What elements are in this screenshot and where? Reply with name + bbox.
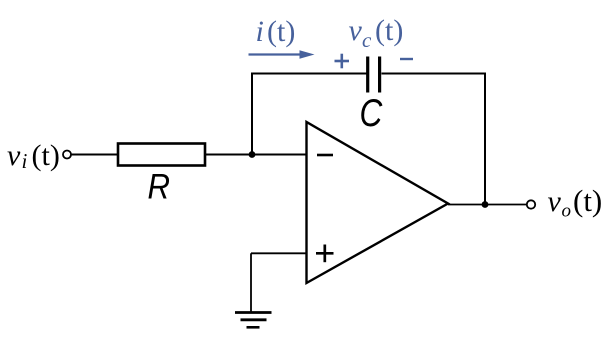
node Vo output terminal <box>527 200 535 208</box>
resistor R <box>118 144 205 166</box>
capacitor C left plate <box>366 57 369 93</box>
svg-text:(t): (t) <box>573 183 602 218</box>
svg-text:C: C <box>360 91 383 135</box>
svg-text:R: R <box>148 168 170 207</box>
node junction dot at output <box>482 201 489 208</box>
svg-text:i: i <box>22 149 28 173</box>
wire ground riser <box>250 253 252 312</box>
wire resistor to inverting input <box>205 154 306 156</box>
wire non-inverting input <box>251 252 306 254</box>
op-amp U1 triangle <box>307 122 449 283</box>
svg-text:c: c <box>362 28 372 52</box>
svg-text:(t): (t) <box>32 139 60 172</box>
svg-text:v: v <box>548 185 562 218</box>
label v_c(t) <box>349 14 404 52</box>
ground symbol <box>235 313 272 328</box>
current arrow i(t) <box>249 50 315 59</box>
capacitor minus polarity mark <box>400 58 413 60</box>
svg-text:i: i <box>256 15 264 48</box>
svg-text:o: o <box>562 201 572 222</box>
node Vi input terminal <box>63 151 71 159</box>
wire input terminal to resistor <box>72 154 119 156</box>
capacitor plus polarity mark <box>335 54 350 69</box>
capacitor C right plate <box>378 57 381 93</box>
op-amp inverting input minus sign <box>317 154 333 157</box>
svg-text:(t): (t) <box>375 14 403 47</box>
wire vertical feedback riser <box>251 73 253 155</box>
svg-text:(t): (t) <box>267 15 295 48</box>
label v_i(t) <box>7 139 60 173</box>
op-amp non-inverting input plus sign <box>316 245 334 263</box>
node junction dot at inverting input <box>249 151 256 158</box>
svg-text:v: v <box>7 139 21 172</box>
label v_o(t) <box>548 183 603 222</box>
wire op-amp output <box>448 204 527 206</box>
wire vertical feedback to output <box>484 74 486 205</box>
wire feedback top left segment <box>251 73 367 75</box>
label i(t) <box>256 15 296 48</box>
svg-text:v: v <box>349 14 363 47</box>
wire feedback top right segment <box>382 73 487 75</box>
